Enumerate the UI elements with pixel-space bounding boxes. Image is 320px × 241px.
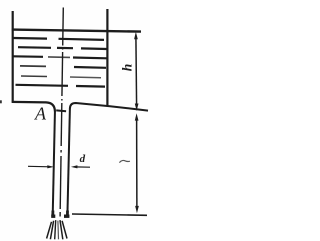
tank left wall (12, 11, 14, 103)
outlet level extension line (72, 214, 147, 215)
dimension d right shaft (75, 166, 91, 168)
dimension l bottom arrowhead (135, 206, 139, 213)
svg-text:d: d (80, 153, 86, 165)
water dash row 3 (13, 56, 107, 58)
dimension h bottom arrowhead (135, 104, 139, 111)
spray jet line 6 (62, 221, 67, 239)
water dash row 1 (14, 38, 105, 40)
tube left wall (53, 111, 55, 216)
section A mark across tube entrance (56, 109, 66, 112)
dimension d left shaft (28, 165, 50, 168)
svg-text:h: h (120, 64, 135, 72)
spray jet line 1 (47, 222, 52, 239)
tank bottom right fillet and bottom/extension line to h dimension (70, 103, 148, 111)
dimension h shaft (135, 36, 138, 106)
water dash row 6 (16, 85, 106, 87)
dimension d left arrowhead (47, 165, 54, 168)
tube outlet left lip (51, 214, 55, 217)
label l (flat cursive ell) (119, 160, 129, 162)
scan speck left edge (0, 100, 2, 103)
water dash row 5 (21, 76, 101, 78)
water dash row 2 (18, 47, 107, 49)
dimension h top arrowhead (134, 32, 138, 39)
spray jet line 2 (50, 221, 53, 240)
dimension d right arrowhead (71, 165, 78, 168)
spray jet line 4 (57, 221, 60, 240)
spray jet line 3 (55, 220, 56, 239)
centre axis line (dash-dot) (60, 8, 63, 217)
water surface line with extension to h dimension (12, 30, 141, 32)
tube right wall (67, 108, 70, 215)
dimension l top arrowhead (135, 113, 139, 120)
tank right wall (106, 9, 108, 107)
spray jet line 5 (60, 220, 63, 239)
dimension l shaft (136, 117, 138, 209)
svg-text:A: A (34, 104, 47, 124)
water dash row 4 (20, 66, 106, 68)
tube outlet right lip (64, 214, 69, 217)
tank bottom left with fillet into tube (12, 102, 55, 112)
